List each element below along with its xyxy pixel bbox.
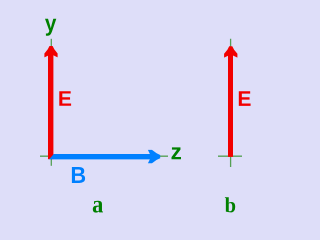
- vector E (diagram a) shaft: [48, 53, 53, 159]
- vector B (diagram a) arrowhead: [148, 150, 160, 163]
- label y (green): [45, 19, 56, 36]
- vector E (diagram a) arrowhead: [44, 46, 57, 57]
- vector E (diagram b) arrowhead: [224, 46, 237, 57]
- diagram a: z axis thin line: [40, 155, 168, 157]
- vector E (diagram b) shaft: [228, 53, 233, 157]
- vector B (diagram a) shaft: [49, 154, 152, 159]
- diagram b: z axis tick: [218, 155, 242, 157]
- label b (green serif): [225, 197, 235, 212]
- diagram a: y axis thin line: [50, 39, 52, 166]
- label E right (red): [239, 91, 251, 106]
- label E left (red): [59, 91, 71, 106]
- diagram b: y axis thin line: [230, 39, 232, 167]
- label B (blue): [72, 167, 85, 183]
- label a (green serif): [93, 201, 103, 213]
- label z (green): [172, 147, 182, 159]
